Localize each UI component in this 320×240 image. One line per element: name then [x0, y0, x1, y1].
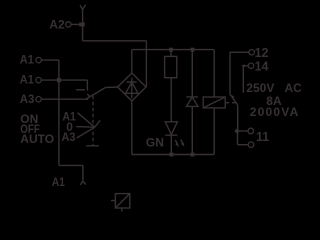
selector link end bar [86, 145, 98, 147]
bottom continuation flare [80, 181, 85, 185]
LED light arrow 2 [181, 139, 183, 144]
freewheel diode D1 [186, 50, 198, 155]
svg-text:2000VA: 2000VA [250, 105, 300, 119]
wire A2 to riser [71, 23, 79, 25]
wire A1 top to bus [41, 59, 59, 61]
wire resistor to LED [170, 78, 172, 122]
resistor R [165, 56, 177, 77]
switch arm S1 [86, 88, 105, 99]
riser wire x=82.6 [82, 9, 84, 41]
wire DC+ rail down to coil [213, 50, 215, 97]
junction dot DC-/diode [191, 153, 195, 157]
wire drop to bridge right vertex [145, 41, 147, 87]
svg-text:A1: A1 [20, 73, 34, 87]
LED GN [165, 122, 177, 135]
junction dot DC-/LED [169, 153, 173, 157]
switch 0-position stub [76, 89, 85, 91]
left bus wire [58, 60, 60, 165]
relay contact arm [232, 97, 237, 131]
junction dot DC+/resistor [169, 48, 173, 52]
wire LED to DC- rail [170, 135, 172, 154]
terminal A3 circle [36, 97, 41, 102]
module box bottom stub [121, 208, 123, 212]
bottom bus wire to A1 continuation [59, 165, 83, 181]
wire junction to 11a [239, 130, 248, 132]
LED light arrow 1 [175, 140, 177, 145]
wire DC+ to resistor [170, 50, 172, 57]
terminal A1 top circle [36, 57, 41, 62]
wire bridge top to DC+ rail [131, 50, 133, 73]
terminal 11a circle [248, 128, 254, 134]
wire 11b to junction [238, 131, 249, 145]
arrowhead at 14 stub [241, 64, 244, 67]
DC- rail [132, 101, 214, 155]
selector link dashed line [92, 96, 94, 146]
switch arm tick [87, 94, 89, 97]
terminal 11b circle [248, 142, 254, 148]
wire 14 stub [243, 66, 248, 93]
junction diamond 11 [234, 128, 239, 133]
svg-text:12: 12 [255, 46, 269, 60]
contact arm arrowhead [231, 95, 235, 99]
svg-text:11: 11 [256, 130, 269, 144]
module box diagonal [115, 194, 129, 208]
junction dot A2/riser [81, 22, 85, 26]
svg-text:AUTO: AUTO [20, 132, 54, 146]
selector fan line to A1 [78, 113, 95, 128]
svg-text:A2: A2 [49, 18, 65, 32]
selector fan extension [95, 120, 101, 127]
svg-text:A3: A3 [20, 92, 35, 106]
terminal 14 circle [248, 63, 253, 68]
top continuation flare [80, 5, 86, 9]
junction dot DC+/diode [191, 48, 195, 52]
module box left stub [111, 200, 115, 202]
wire A1 mid to switch contact [41, 80, 87, 91]
wire A3 to switch pivot [42, 98, 89, 100]
svg-text:A1: A1 [52, 175, 65, 189]
terminal A1 mid circle [36, 77, 41, 82]
DC+ rail [132, 49, 214, 51]
wire 12 fixed contact [230, 52, 249, 94]
electronic module box [115, 194, 129, 208]
selector fan line to 0 [76, 126, 95, 129]
bridge rectifier diamond [118, 73, 146, 101]
bridge inner diode [126, 78, 138, 99]
wire coil to DC- rail [213, 108, 215, 155]
selector fan line to A3 [77, 127, 95, 138]
mechanical link coil to contact (dashed) [225, 102, 235, 104]
wire riser to drop [83, 40, 147, 42]
contact 12 tick [230, 95, 232, 97]
svg-text:GN: GN [146, 135, 164, 149]
wire arm to bridge left vertex [105, 86, 117, 89]
junction dot bus/A1 mid [57, 78, 61, 82]
terminal A2 circle [66, 22, 71, 27]
relay coil K1 [203, 97, 225, 108]
svg-text:A1: A1 [20, 53, 34, 67]
arrowhead on A2 wire [79, 22, 84, 26]
terminal 12 circle [249, 50, 254, 55]
svg-text:A3: A3 [62, 130, 76, 144]
svg-text:14: 14 [255, 60, 269, 74]
